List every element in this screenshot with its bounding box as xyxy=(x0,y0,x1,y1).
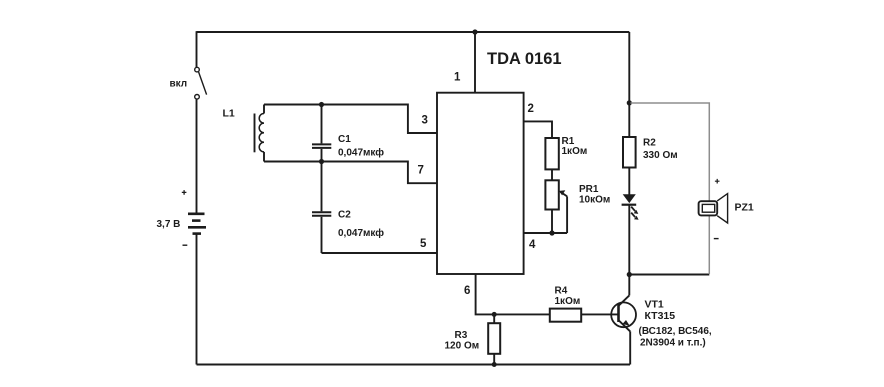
wire left rail upper xyxy=(196,31,198,67)
node L1/C1 top junction xyxy=(319,102,324,107)
wire pin 6 net xyxy=(476,274,550,314)
svg-text:1: 1 xyxy=(454,72,461,84)
svg-text:7: 7 xyxy=(418,165,424,177)
svg-text:(ВС182, ВС546,: (ВС182, ВС546, xyxy=(639,326,712,337)
svg-text:0,047мкф: 0,047мкф xyxy=(338,227,384,239)
resistor R1 xyxy=(545,136,587,169)
wire top rail xyxy=(197,31,630,33)
wire piezo loop (grey) xyxy=(631,103,710,274)
wire bottom rail xyxy=(197,364,631,366)
resistor R3 xyxy=(445,314,501,364)
resistor R4 xyxy=(550,286,581,322)
svg-text:3: 3 xyxy=(422,115,428,127)
wire pin 2 net xyxy=(524,121,552,137)
IC U1 TDA 0161 xyxy=(437,50,562,274)
svg-text:вкл: вкл xyxy=(170,79,188,90)
node R3 bottom junction xyxy=(492,362,497,367)
svg-text:120 Ом: 120 Ом xyxy=(445,341,480,352)
svg-text:5: 5 xyxy=(420,238,427,250)
wire LED to collector node xyxy=(628,205,630,275)
svg-text:4: 4 xyxy=(529,239,536,251)
svg-text:R2: R2 xyxy=(643,138,656,149)
svg-text:2: 2 xyxy=(528,103,534,115)
node pin1 top junction xyxy=(472,29,477,34)
svg-text:VT1: VT1 xyxy=(645,299,664,311)
svg-text:1кОм: 1кОм xyxy=(562,146,588,157)
svg-text:1кОм: 1кОм xyxy=(555,296,581,307)
svg-text:С1: С1 xyxy=(338,134,351,145)
wire left rail middle xyxy=(196,99,198,213)
svg-text:С2: С2 xyxy=(338,210,351,221)
capacitor C2 xyxy=(312,162,384,254)
wire pin 7 net (bottom of tank circuit) xyxy=(264,162,437,184)
wire pin 1 xyxy=(474,32,476,93)
node pin4/PR1 junction xyxy=(549,230,554,235)
wire R1 to PR1 xyxy=(551,169,553,180)
wire R4 to base xyxy=(581,313,618,315)
svg-text:PZ1: PZ1 xyxy=(735,202,754,214)
inductor L1 xyxy=(223,105,265,162)
capacitor C1 xyxy=(312,105,384,162)
wire pin 3 net (top of tank circuit) xyxy=(264,105,437,134)
wire pin 4 net xyxy=(524,232,568,234)
node L1/C1 bottom junction xyxy=(319,159,324,164)
svg-text:0,047мкф: 0,047мкф xyxy=(338,147,384,159)
switch вкл xyxy=(170,67,207,99)
LED HL1 xyxy=(622,194,639,220)
svg-text:TDA 0161: TDA 0161 xyxy=(487,50,562,68)
svg-text:КТ315: КТ315 xyxy=(645,310,676,322)
resistor R2 xyxy=(623,137,678,168)
svg-text:R3: R3 xyxy=(455,330,468,341)
wire emitter lead to bottom rail xyxy=(629,331,631,364)
wire pin 5 net xyxy=(322,252,438,254)
wire collector node to piezo return xyxy=(629,274,709,276)
wire R2 branch from top rail xyxy=(628,32,630,137)
svg-text:2N3904 и т.п.): 2N3904 и т.п.) xyxy=(640,338,706,349)
node pin6/R3 junction xyxy=(492,312,497,317)
battery 3,7 В xyxy=(157,190,207,245)
node collector junction xyxy=(627,272,632,277)
svg-text:3,7 В: 3,7 В xyxy=(157,219,181,230)
svg-text:R4: R4 xyxy=(555,286,568,297)
svg-text:L1: L1 xyxy=(223,108,235,120)
svg-text:PR1: PR1 xyxy=(579,184,599,195)
svg-text:6: 6 xyxy=(464,285,470,297)
piezo PZ1 xyxy=(699,179,754,239)
node piezo branch junction xyxy=(627,100,632,105)
wire PR1 bottom leg xyxy=(551,210,553,234)
svg-text:330 Ом: 330 Ом xyxy=(643,150,678,161)
potentiometer PR1 xyxy=(545,180,610,233)
transistor VT1 xyxy=(611,295,712,348)
svg-text:10кОм: 10кОм xyxy=(579,195,610,206)
wire left rail lower xyxy=(196,234,198,365)
wire R2 to LED xyxy=(628,168,630,195)
wire collector lead xyxy=(628,275,630,296)
